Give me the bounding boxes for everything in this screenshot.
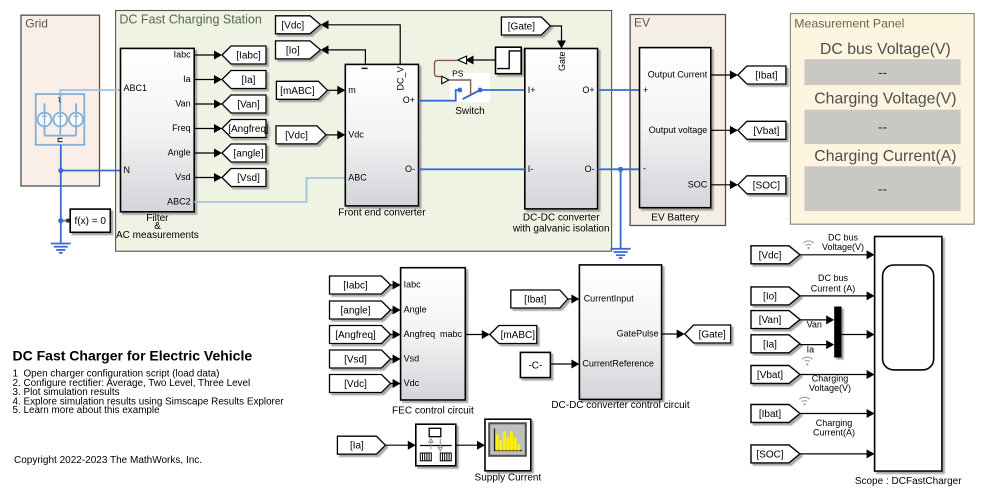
goto tag [SOC] battery bbox=[738, 176, 786, 194]
wire GatePulse out bbox=[662, 330, 685, 339]
wire Van out bbox=[194, 100, 222, 109]
ground dc bus bbox=[611, 169, 631, 258]
from tag [Iabc] fec bbox=[330, 276, 391, 294]
svg-text:[SOC]: [SOC] bbox=[756, 449, 783, 460]
svg-text:[Iabc]: [Iabc] bbox=[343, 281, 368, 292]
svg-text:Charging: Charging bbox=[812, 373, 849, 383]
svg-text:Iabc: Iabc bbox=[174, 50, 192, 60]
goto tag [Ibat] battery bbox=[738, 66, 786, 84]
svg-text:[Io]: [Io] bbox=[763, 291, 777, 302]
svg-text:O-: O- bbox=[585, 164, 595, 174]
wire Ia to buffer bbox=[385, 441, 415, 450]
goto tag [Ia] bbox=[222, 71, 266, 89]
wire angle to fec control bbox=[391, 306, 401, 315]
wire Vdc to converter bbox=[326, 130, 345, 139]
block buffer bbox=[416, 424, 456, 466]
svg-text:[Vdc]: [Vdc] bbox=[281, 20, 304, 31]
wire Angfreq to fec control bbox=[391, 330, 401, 339]
svg-text:Vsd: Vsd bbox=[404, 354, 420, 364]
from tag [angle] fec bbox=[330, 301, 391, 319]
svg-text:--: -- bbox=[878, 181, 888, 197]
junction O- ground bbox=[618, 167, 623, 172]
wire DC-DC O- to battery - bbox=[598, 168, 640, 170]
goto tag [Vbat] battery bbox=[738, 121, 786, 139]
wire solver stub bbox=[61, 220, 67, 222]
wire Iabc out bbox=[194, 51, 222, 60]
wire I to Io goto bbox=[321, 45, 366, 64]
from tag [mABC] bbox=[276, 81, 327, 99]
wire switch to I+ bbox=[480, 89, 525, 91]
wire O- to I- bbox=[419, 168, 525, 170]
block Step bbox=[496, 47, 522, 73]
wire Vbat to scope bbox=[800, 370, 875, 379]
wire three-phase from source to ABC1 bbox=[60, 90, 120, 95]
wire N to filter bbox=[61, 170, 121, 172]
wire battery SOC bbox=[711, 180, 738, 189]
svg-text:Scope : DCFastCharger: Scope : DCFastCharger bbox=[855, 476, 962, 487]
block solver f(x) = 0 bbox=[70, 209, 110, 232]
svg-text:[Gate]: [Gate] bbox=[508, 22, 535, 33]
PS converter triangles bbox=[458, 56, 467, 64]
svg-text:DC bus: DC bus bbox=[828, 233, 859, 243]
svg-text:ABC2: ABC2 bbox=[167, 197, 191, 207]
svg-text:[angle]: [angle] bbox=[340, 306, 370, 317]
wire mabc out bbox=[465, 330, 490, 339]
block Spectrum Analyzer Supply Current bbox=[485, 419, 531, 471]
block Filter and AC measurements bbox=[121, 48, 195, 211]
svg-text:Vdc: Vdc bbox=[404, 378, 420, 388]
svg-text:Angfreq: Angfreq bbox=[404, 329, 436, 339]
scope screen bbox=[883, 265, 934, 370]
wire Vdc to fec control bbox=[391, 379, 401, 388]
goto tag [Van] bbox=[222, 95, 266, 113]
wire neutral vertical bbox=[60, 145, 62, 244]
svg-text:[Vdc]: [Vdc] bbox=[285, 130, 308, 141]
svg-text:Angle: Angle bbox=[404, 305, 427, 315]
svg-text:[Van]: [Van] bbox=[759, 315, 782, 326]
wire Iabc to fec control bbox=[391, 281, 401, 290]
svg-text:Ia: Ia bbox=[183, 74, 191, 84]
mux bbox=[834, 307, 841, 358]
svg-text:EV Battery: EV Battery bbox=[651, 213, 699, 224]
wire Vsd out bbox=[194, 173, 222, 182]
from tag [Gate] top bbox=[501, 17, 550, 35]
svg-text:with galvanic isolation: with galvanic isolation bbox=[512, 224, 610, 235]
switch background bbox=[450, 73, 490, 102]
wire Vsd to fec control bbox=[391, 355, 401, 364]
svg-text:ABC1: ABC1 bbox=[124, 83, 148, 93]
area DC Fast Charging Station panel bbox=[116, 11, 612, 252]
svg-text:CurrentInput: CurrentInput bbox=[584, 294, 635, 304]
goto tag [Vdc] top bbox=[276, 16, 321, 34]
from tag [Vsd] fec bbox=[330, 350, 391, 368]
svg-text:O-: O- bbox=[405, 164, 415, 174]
svg-text:[Angfreq]: [Angfreq] bbox=[335, 330, 376, 341]
svg-text:+: + bbox=[643, 85, 648, 95]
from tag [Ibat] control bbox=[511, 290, 568, 308]
svg-text:N: N bbox=[124, 165, 131, 175]
svg-text:Vsd: Vsd bbox=[175, 172, 191, 182]
block FEC control circuit bbox=[401, 268, 466, 400]
svg-text:DC Fast Charging Station: DC Fast Charging Station bbox=[119, 13, 261, 27]
svg-text:--: -- bbox=[878, 119, 888, 135]
svg-text:DC Fast Charger for Electric V: DC Fast Charger for Electric Vehicle bbox=[13, 348, 253, 364]
from tag [Ia] supply bbox=[337, 436, 385, 454]
svg-text:[Ibat]: [Ibat] bbox=[755, 71, 777, 82]
svg-text:f(x) = 0: f(x) = 0 bbox=[74, 216, 106, 227]
from tag [SOC] scope bbox=[751, 445, 800, 463]
svg-text:Charging Voltage(V): Charging Voltage(V) bbox=[814, 91, 956, 108]
svg-text:mabc: mabc bbox=[440, 329, 463, 339]
svg-text:Voltage(V): Voltage(V) bbox=[822, 242, 864, 252]
from tag [Van] scope bbox=[751, 311, 800, 329]
svg-text:DC bus Voltage(V): DC bus Voltage(V) bbox=[820, 41, 951, 58]
goto tag [Iabc] bbox=[222, 46, 266, 64]
wire buffer to spectrum bbox=[456, 441, 485, 450]
svg-text:DC-DC converter control circui: DC-DC converter control circuit bbox=[551, 400, 690, 411]
area Measurement Panel bbox=[790, 14, 974, 225]
svg-text:[Vbat]: [Vbat] bbox=[753, 126, 779, 137]
svg-text:DC bus: DC bus bbox=[818, 273, 849, 283]
block Scope DCFastCharger bbox=[875, 237, 942, 472]
from tag [Vdc] fec bbox=[330, 375, 391, 393]
svg-text:[Vdc]: [Vdc] bbox=[759, 250, 782, 261]
svg-text:FEC control circuit: FEC control circuit bbox=[392, 406, 474, 417]
wire Angfreq out bbox=[194, 124, 222, 133]
svg-text:[SOC]: [SOC] bbox=[753, 180, 780, 191]
switch poles and lever bbox=[463, 91, 479, 100]
svg-text:Copyright 2022-2023 The MathWo: Copyright 2022-2023 The MathWorks, Inc. bbox=[14, 455, 202, 466]
svg-text:[angle]: [angle] bbox=[233, 149, 263, 160]
display box DC bus Voltage bbox=[805, 59, 961, 85]
wire mux to scope bbox=[842, 330, 875, 339]
wire O+ to switch bbox=[419, 90, 458, 101]
wire SOC to scope bbox=[800, 449, 875, 458]
svg-text:[Io]: [Io] bbox=[286, 45, 300, 56]
svg-text:Output Current: Output Current bbox=[648, 70, 708, 80]
svg-text:O+: O+ bbox=[582, 85, 594, 95]
svg-text:[Van]: [Van] bbox=[237, 100, 260, 111]
wire mABC to m bbox=[327, 86, 345, 95]
from tag [Ibat] scope bbox=[751, 405, 800, 423]
svg-text:[Ibat]: [Ibat] bbox=[524, 295, 546, 306]
svg-text:[mABC]: [mABC] bbox=[280, 86, 315, 97]
wire constant to control bbox=[550, 360, 579, 369]
log badge Vdc bbox=[803, 241, 813, 245]
log badge Ibat bbox=[799, 397, 809, 401]
svg-text:[Ia]: [Ia] bbox=[350, 441, 364, 452]
svg-text:[mABC]: [mABC] bbox=[501, 330, 536, 341]
block Front end converter bbox=[345, 64, 418, 206]
svg-text:Angle: Angle bbox=[168, 148, 191, 158]
display box Charging Voltage bbox=[805, 110, 961, 144]
wire DC-DC O+ to battery + bbox=[598, 89, 640, 91]
wire Van to mux bbox=[800, 315, 834, 324]
wire PS brown bbox=[435, 60, 471, 95]
svg-text:CurrentReference: CurrentReference bbox=[582, 359, 654, 369]
svg-text:I-: I- bbox=[528, 164, 534, 174]
svg-text:PS: PS bbox=[452, 69, 464, 79]
wire step to PS converter bbox=[466, 56, 496, 65]
from tag [Vbat] scope bbox=[751, 366, 800, 384]
from tag [Io] scope bbox=[751, 287, 800, 305]
svg-text:Current(A): Current(A) bbox=[813, 427, 855, 437]
svg-text:Front end converter: Front end converter bbox=[338, 208, 426, 219]
svg-text:Gate: Gate bbox=[557, 51, 567, 71]
junction at solver bbox=[58, 218, 63, 223]
wire battery Ibat bbox=[711, 71, 738, 80]
svg-text:DC-DC converter: DC-DC converter bbox=[523, 213, 600, 224]
block DC-DC converter control circuit bbox=[579, 265, 661, 400]
svg-text:Charging Current(A): Charging Current(A) bbox=[814, 148, 956, 165]
svg-text:I+: I+ bbox=[528, 85, 536, 95]
svg-text:[Angfreq]: [Angfreq] bbox=[228, 124, 269, 135]
port label I rotated bbox=[362, 68, 368, 70]
ground grid bbox=[51, 244, 71, 253]
goto tag [Angfreq] bbox=[222, 120, 269, 138]
svg-text:[Vdc]: [Vdc] bbox=[344, 379, 367, 390]
svg-text:[Ibat]: [Ibat] bbox=[759, 409, 781, 420]
svg-text:Freq: Freq bbox=[172, 123, 191, 133]
svg-text:Iabc: Iabc bbox=[404, 280, 422, 290]
svg-text:Switch: Switch bbox=[455, 106, 484, 117]
from tag [Angfreq] fec bbox=[330, 326, 391, 344]
from tag [Ia] scope bbox=[751, 335, 800, 353]
svg-text:-C-: -C- bbox=[528, 361, 542, 372]
from tag [Vdc] mid bbox=[276, 126, 326, 144]
wire Io to scope bbox=[800, 291, 875, 300]
svg-text:O+: O+ bbox=[403, 95, 415, 105]
wire ABC2 to Front end converter bbox=[194, 178, 345, 202]
wire Ibat to scope bbox=[800, 409, 875, 418]
block three-phase voltage source bbox=[36, 94, 85, 145]
block constant -C- bbox=[520, 352, 550, 377]
svg-text:--: -- bbox=[878, 64, 888, 80]
goto tag [Io] bbox=[276, 41, 321, 59]
svg-text:GatePulse: GatePulse bbox=[617, 329, 659, 339]
svg-text:5. Learn more about this examp: 5. Learn more about this example bbox=[13, 405, 161, 416]
goto tag [Vsd] bbox=[222, 169, 266, 187]
wire Ia to mux bbox=[800, 340, 834, 349]
svg-text:Measurement Panel: Measurement Panel bbox=[794, 17, 904, 31]
svg-text:[Iabc]: [Iabc] bbox=[236, 51, 261, 62]
svg-text:Current (A): Current (A) bbox=[811, 283, 856, 293]
wire battery Vbat bbox=[711, 126, 738, 135]
svg-text:[Vbat]: [Vbat] bbox=[757, 370, 783, 381]
svg-text:DC_V: DC_V bbox=[396, 66, 406, 90]
svg-text:[Vsd]: [Vsd] bbox=[344, 355, 367, 366]
svg-text:m: m bbox=[348, 85, 356, 95]
svg-text:Van: Van bbox=[807, 320, 822, 330]
wire Ibat to control bbox=[568, 295, 580, 304]
svg-text:EV: EV bbox=[634, 16, 650, 30]
svg-text:SOC: SOC bbox=[688, 179, 708, 189]
svg-text:Supply Current: Supply Current bbox=[475, 473, 542, 484]
svg-text:[Gate]: [Gate] bbox=[699, 330, 726, 341]
from tag [Vdc] scope bbox=[751, 246, 800, 264]
wire DC_V to Vdc goto bbox=[321, 20, 401, 64]
block DC-DC converter with galvanic isolation bbox=[525, 49, 598, 209]
goto tag [Gate] bottom bbox=[685, 325, 731, 343]
svg-text:[Ia]: [Ia] bbox=[242, 75, 256, 86]
area Grid panel bbox=[21, 15, 100, 186]
wire Ia out bbox=[194, 75, 222, 84]
area EV panel bbox=[630, 15, 725, 226]
svg-text:-: - bbox=[643, 164, 646, 174]
wire angle out bbox=[194, 149, 222, 158]
svg-text:[Vsd]: [Vsd] bbox=[237, 173, 260, 184]
svg-text:[Ia]: [Ia] bbox=[763, 339, 777, 350]
svg-text:AC measurements: AC measurements bbox=[116, 230, 199, 241]
wire Vdc to scope bbox=[800, 250, 875, 259]
block EV Battery bbox=[640, 48, 711, 208]
log badge Vbat bbox=[802, 357, 812, 361]
display box Charging Current bbox=[805, 166, 961, 211]
junction at N bbox=[58, 168, 63, 173]
goto tag [mABC] bottom bbox=[490, 326, 537, 344]
svg-text:Voltage(V): Voltage(V) bbox=[809, 383, 851, 393]
svg-text:Ia: Ia bbox=[807, 345, 815, 355]
svg-text:Output voltage: Output voltage bbox=[649, 125, 708, 135]
svg-text:Van: Van bbox=[175, 99, 190, 109]
svg-text:Grid: Grid bbox=[25, 17, 48, 31]
svg-text:Vdc: Vdc bbox=[348, 129, 364, 139]
wire Gate to DC-DC converter bbox=[550, 26, 566, 49]
goto tag [angle] bbox=[222, 144, 266, 162]
svg-text:ABC: ABC bbox=[348, 173, 367, 183]
